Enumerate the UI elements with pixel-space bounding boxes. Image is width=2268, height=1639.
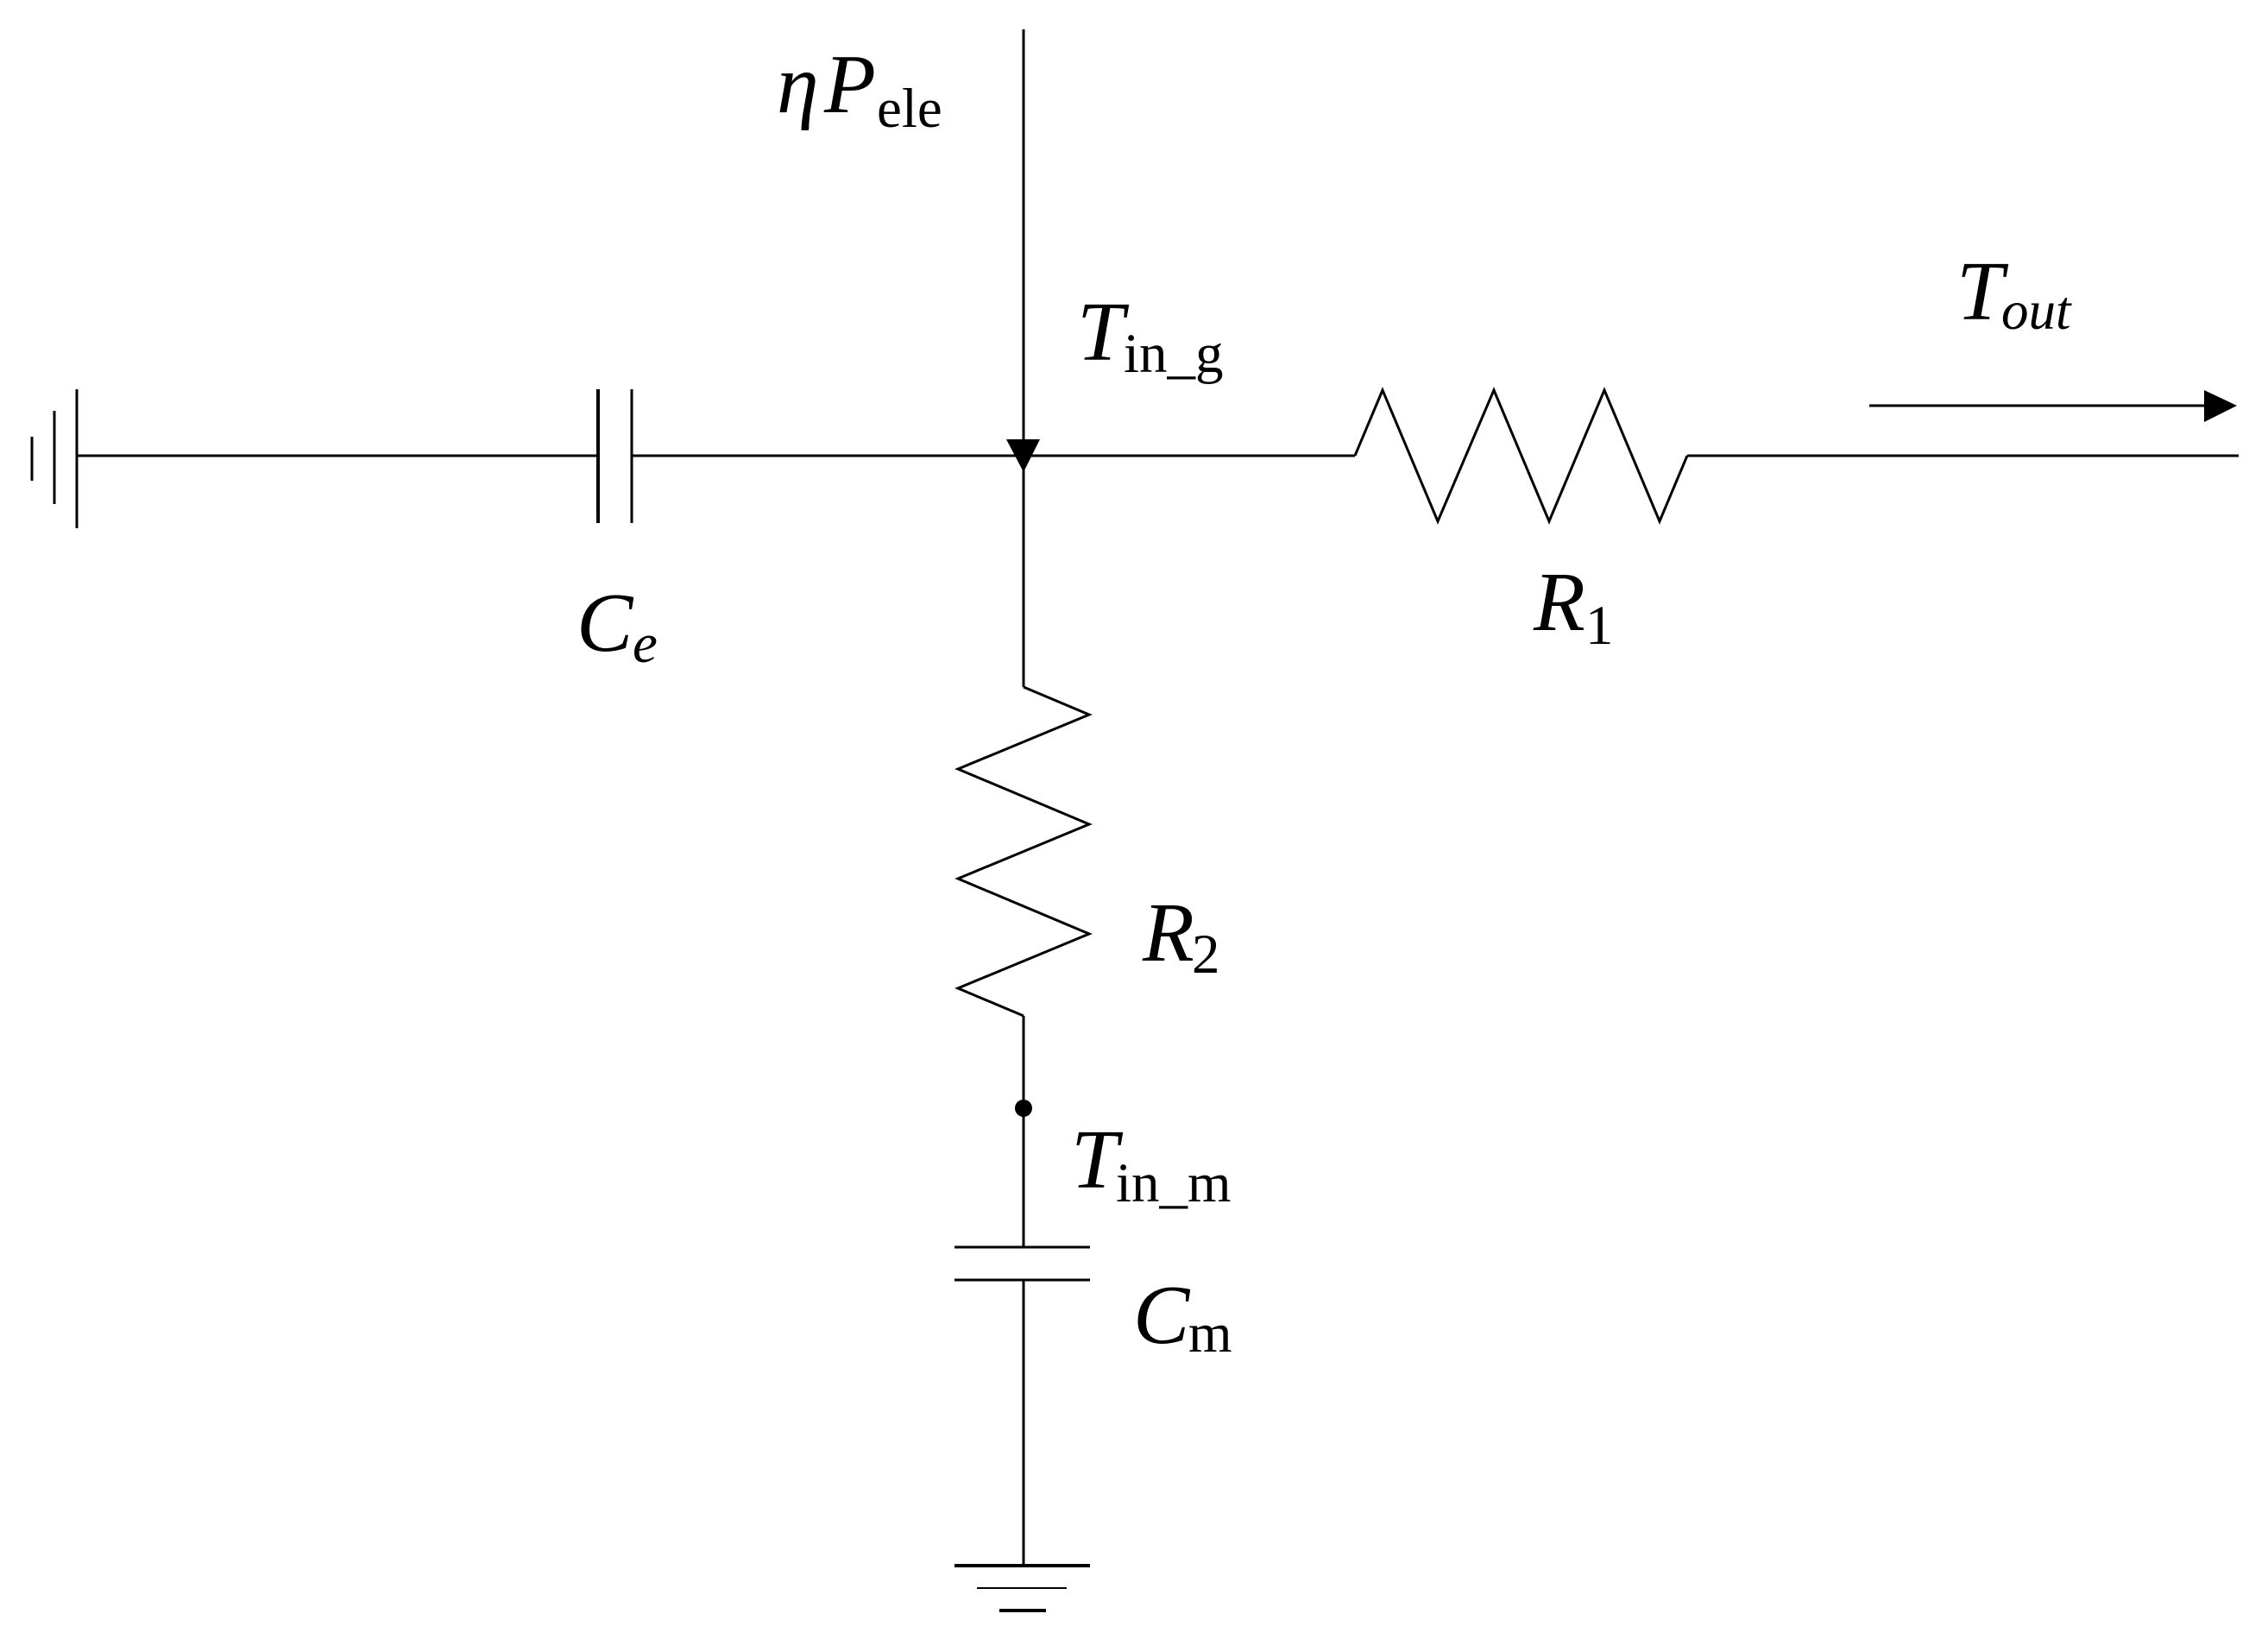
svg-text:P: P (823, 38, 876, 131)
wire from left ground to capacitor Ce (77, 455, 598, 457)
svg-text:1: 1 (1585, 595, 1614, 657)
svg-text:ele: ele (877, 78, 942, 140)
svg-text:e: e (633, 613, 658, 675)
ground bottom (954, 1566, 1090, 1611)
svg-text:R: R (1533, 556, 1585, 649)
resistor R2 (vertical zigzag) (958, 687, 1089, 1016)
svg-text:η: η (777, 38, 819, 131)
label Tout (1956, 245, 2072, 341)
wire from R1 to right edge (1687, 455, 2239, 457)
wire from R2 to capacitor Cm (1023, 1016, 1025, 1247)
svg-text:out: out (2001, 281, 2072, 341)
svg-text:C: C (1133, 1269, 1191, 1362)
svg-text:in_g: in_g (1124, 323, 1224, 385)
label ηPele (heat input) (777, 38, 942, 140)
resistor R1 (zigzag) (1355, 390, 1687, 521)
label Ce (576, 577, 658, 675)
label R2 (1142, 886, 1220, 986)
ground left (ambient reference, sideways ground symbol) (32, 389, 77, 528)
Tout flow arrow (line and head) (1869, 390, 2237, 422)
svg-text:T: T (1077, 286, 1130, 379)
svg-text:m: m (1188, 1302, 1232, 1365)
svg-text:in_m: in_m (1116, 1152, 1232, 1214)
label Tin_m (1071, 1113, 1232, 1214)
svg-text:2: 2 (1192, 924, 1220, 986)
label Tin_g (1077, 286, 1224, 385)
wire from Cm to bottom ground (1023, 1280, 1025, 1566)
node Tin_m (junction dot) (1015, 1100, 1032, 1117)
node Tin_g (input arrowhead at junction) (1006, 439, 1040, 472)
wire from Ce to node Tin_g (632, 455, 1355, 457)
capacitor Cm (plates) (954, 1247, 1090, 1280)
label Cm (1133, 1269, 1232, 1365)
label R1 (1533, 556, 1614, 657)
wire vertical input from top (heat source lead) (1023, 29, 1025, 442)
capacitor Ce (plates) (598, 389, 632, 523)
svg-text:R: R (1142, 886, 1194, 980)
svg-text:C: C (576, 577, 634, 670)
wire from node Tin_g down to resistor R2 (1023, 456, 1025, 687)
